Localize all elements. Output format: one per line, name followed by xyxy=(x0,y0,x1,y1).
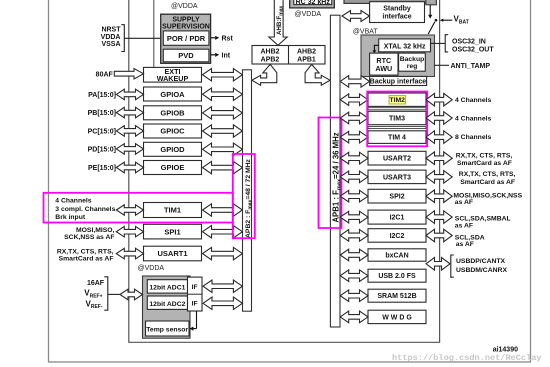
wire I2C1 pins arrow xyxy=(426,211,452,224)
svg-text:SCK,NSS as AF: SCK,NSS as AF xyxy=(64,234,114,241)
peripheral GPIOC box xyxy=(144,124,202,138)
svg-text:PD[15:0]: PD[15:0] xyxy=(88,147,116,154)
svg-text:USART3: USART3 xyxy=(383,174,411,181)
peripheral GPIOD box xyxy=(144,142,202,156)
svg-text:Rst: Rst xyxy=(222,35,234,42)
peripheral SPI2 box xyxy=(368,189,426,203)
svg-text:ANTI_TAMP: ANTI_TAMP xyxy=(451,63,491,70)
svg-text:OSC32_IN: OSC32_IN xyxy=(452,38,486,45)
XTAL 32 kHz box xyxy=(379,39,431,52)
svg-text:PA[15:0]: PA[15:0] xyxy=(88,92,116,99)
spacer box TIM2-TIM3 xyxy=(368,108,426,110)
bus AHB down arrow xyxy=(269,0,287,45)
wire PC[15:0] arrow xyxy=(116,126,143,137)
peripheral bxCAN box xyxy=(368,249,426,261)
wire GPIOC to APB2 bus arrow xyxy=(203,125,243,137)
svg-text:AHB2: AHB2 xyxy=(260,49,279,56)
svg-text:RC 32 kHz: RC 32 kHz xyxy=(296,0,331,6)
supply supervision block U-SUP xyxy=(161,14,211,63)
adc ADC2 box xyxy=(147,296,187,309)
standby gray backdrop xyxy=(344,0,436,3)
node NRST/VDDA/VSSA bracket xyxy=(121,25,124,52)
svg-text:SUPERVISION: SUPERVISION xyxy=(162,23,210,30)
wire TIM1 to APB2 bus arrow xyxy=(203,204,243,216)
wire GPIOA to APB2 bus arrow xyxy=(203,88,243,100)
svg-text:interface: interface xyxy=(382,13,411,20)
svg-text:PE[15:0]: PE[15:0] xyxy=(88,165,116,172)
svg-text:TIM2: TIM2 xyxy=(389,97,405,104)
svg-text:Temp sensor: Temp sensor xyxy=(146,326,188,333)
svg-text:I2C1: I2C1 xyxy=(390,215,405,222)
wire EXTI to APB2 bus arrow xyxy=(203,69,243,81)
wire standby to APB1 arrow xyxy=(342,11,370,22)
adc ADC1 box xyxy=(147,280,187,293)
wire USB2.0FS to APB1 arrow xyxy=(340,270,368,282)
wire PB[15:0] arrow xyxy=(116,107,143,118)
svg-text:RX,TX, CTS, RTS,: RX,TX, CTS, RTS, xyxy=(57,248,114,255)
svg-text:GPIOC: GPIOC xyxy=(160,127,185,136)
wire ANTI_TAMP xyxy=(435,64,450,66)
supply rail wire xyxy=(153,0,155,67)
svg-text:Backup interface: Backup interface xyxy=(370,79,427,86)
PVD box xyxy=(163,49,209,62)
wire NRST to POR/PDR xyxy=(124,37,163,39)
wire WWDG to APB1 arrow xyxy=(340,311,368,323)
svg-text:VREF+: VREF+ xyxy=(84,289,102,300)
wire VREF to adc xyxy=(108,293,120,295)
peripheral GPIOE box xyxy=(144,161,202,175)
svg-text:80AF: 80AF xyxy=(96,71,114,78)
temp sensor box xyxy=(146,321,190,336)
svg-text:Standby: Standby xyxy=(383,5,411,12)
svg-text:VBAT: VBAT xyxy=(454,15,469,26)
wire TIM3 pins arrow xyxy=(426,112,452,125)
highlight TIM2 yellow xyxy=(389,96,406,104)
peripheral SRAM512B box xyxy=(368,289,426,302)
wire TIM2 pins arrow xyxy=(426,93,452,106)
peripheral I2C2 box xyxy=(368,229,426,243)
highlight APB1 magenta box xyxy=(319,118,342,229)
svg-text:SRAM 512B: SRAM 512B xyxy=(377,293,416,300)
wire SPI1 to APB2 bus arrow xyxy=(203,226,243,238)
svg-text:PB[15:0]: PB[15:0] xyxy=(88,110,116,117)
wire TIM4 pins arrow xyxy=(426,131,452,144)
svg-text:@VDDA: @VDDA xyxy=(171,3,198,10)
highlight TIM1 magenta box xyxy=(44,193,233,223)
peripheral EXTI box xyxy=(144,67,202,82)
peripheral USART3 box xyxy=(368,170,426,184)
wire TIM2 to APB1 arrow xyxy=(340,94,368,106)
wire SPI1 pins arrow xyxy=(116,226,143,237)
svg-text:reg: reg xyxy=(407,63,418,70)
svg-text:NRST: NRST xyxy=(101,27,121,34)
svg-text:PVD: PVD xyxy=(178,51,194,60)
Backup interface box xyxy=(370,76,427,85)
svg-text:USART2: USART2 xyxy=(383,156,411,163)
wire bridge to APB2 elbow arrow xyxy=(252,64,277,85)
wire OSC32 bracket xyxy=(431,42,445,44)
svg-text:12bit ADC2: 12bit ADC2 xyxy=(149,301,185,308)
svg-text:USB 2.0 FS: USB 2.0 FS xyxy=(378,273,416,280)
svg-text:RX,TX, CTS, RTS,: RX,TX, CTS, RTS, xyxy=(459,171,516,178)
wire ADC1 to bus arrow xyxy=(203,280,242,292)
adc IF box xyxy=(188,277,203,311)
peripheral GPIOA box xyxy=(144,87,202,101)
wire SPI2 to APB1 arrow xyxy=(340,190,368,202)
svg-text:3 compl. Channels: 3 compl. Channels xyxy=(55,206,115,213)
svg-text:Brk input: Brk input xyxy=(55,214,86,221)
svg-text:TIM3: TIM3 xyxy=(389,116,405,123)
svg-text:https://blog.csdn.net/ReCclay: https://blog.csdn.net/ReCclay xyxy=(392,353,542,363)
VBAT switch symbol xyxy=(429,5,431,16)
svg-text:Backup: Backup xyxy=(400,56,425,63)
wire PA[15:0] arrow xyxy=(116,89,143,100)
wire bridge to APB1 elbow arrow xyxy=(305,64,330,85)
wire ADC2 to bus arrow xyxy=(203,297,242,309)
adc block gray container xyxy=(143,276,191,338)
svg-text:AWU: AWU xyxy=(375,64,392,73)
wire PD[15:0] arrow xyxy=(116,144,143,155)
wire TIM3 to APB1 arrow xyxy=(340,112,368,124)
peripheral TIM3 box xyxy=(368,111,426,124)
wire I2C1 to APB1 arrow xyxy=(340,211,368,223)
svg-text:8 Channels: 8 Channels xyxy=(455,134,491,141)
RTC AWU box xyxy=(370,53,398,75)
POR / PDR box xyxy=(163,31,209,45)
Backup reg box xyxy=(399,53,426,71)
svg-text:SmartCard as AF: SmartCard as AF xyxy=(59,255,114,262)
Int output arrow xyxy=(211,54,216,56)
node USB/CAN bracket xyxy=(451,255,454,277)
svg-text:PC[15:0]: PC[15:0] xyxy=(88,129,116,136)
svg-text:USBDP/CANTX: USBDP/CANTX xyxy=(456,258,506,265)
svg-text:POR / PDR: POR / PDR xyxy=(167,34,206,43)
svg-text:@VBAT: @VBAT xyxy=(353,28,379,35)
peripheral GPIOB box xyxy=(144,106,202,120)
svg-text:W W D G: W W D G xyxy=(382,314,412,321)
RC 32 kHz block xyxy=(290,0,335,8)
wire USART1 pins arrow xyxy=(116,248,143,259)
svg-text:APB2 : Fmax=48 / 72 MHz: APB2 : Fmax=48 / 72 MHz xyxy=(245,158,254,238)
svg-text:4 Channels: 4 Channels xyxy=(455,97,491,104)
peripheral TIM1 box xyxy=(144,203,202,218)
standby interface box xyxy=(370,2,425,23)
svg-text:SmartCard as AF: SmartCard as AF xyxy=(460,179,515,186)
wire backup interface arrow xyxy=(340,76,369,88)
svg-text:WAKEUP: WAKEUP xyxy=(157,74,189,83)
svg-text:GPIOB: GPIOB xyxy=(160,109,185,118)
wire PE[15:0] arrow xyxy=(116,162,143,173)
svg-text:APB1: APB1 xyxy=(297,57,316,64)
wire GPIOE to APB2 bus arrow xyxy=(203,161,243,173)
wire USART2 to APB1 arrow xyxy=(340,152,368,164)
wire VREF arrow xyxy=(120,289,143,300)
svg-text:SmartCard as AF: SmartCard as AF xyxy=(457,160,512,167)
peripheral USART2 box xyxy=(368,151,426,165)
wire USART2 pins arrow xyxy=(426,152,452,165)
wire USART3 pins arrow xyxy=(426,171,452,184)
svg-text:@VDDA: @VDDA xyxy=(295,11,322,18)
svg-text:USBDM/CANRX: USBDM/CANRX xyxy=(456,267,507,274)
spacer box TIM3-TIM4 xyxy=(368,126,426,128)
svg-text:XTAL 32 kHz: XTAL 32 kHz xyxy=(384,43,426,50)
svg-text:SPI2: SPI2 xyxy=(389,194,404,201)
svg-text:IF: IF xyxy=(192,284,198,291)
svg-text:12bit ADC1: 12bit ADC1 xyxy=(149,285,185,292)
svg-text:TIM1: TIM1 xyxy=(164,206,181,215)
wire SRAM512B to APB1 arrow xyxy=(340,290,368,302)
wire IF to temp sensor xyxy=(196,311,198,329)
wire USART1 to APB2 bus arrow xyxy=(203,247,243,259)
wire I2C2 to APB1 arrow xyxy=(340,230,368,242)
svg-text:as AF: as AF xyxy=(455,199,473,206)
wire XTAL to RTC arrow xyxy=(374,45,378,50)
peripheral SPI1 box xyxy=(144,224,202,239)
svg-text:VDDA: VDDA xyxy=(101,34,121,41)
wire GPIOD to APB2 bus arrow xyxy=(203,143,243,155)
peripheral TIM4 box xyxy=(368,131,426,144)
bus APB1 xyxy=(330,15,340,327)
node VREF bracket xyxy=(104,277,108,310)
svg-text:GPIOE: GPIOE xyxy=(161,163,185,172)
svg-text:SPI1: SPI1 xyxy=(164,227,180,236)
svg-text:GPIOA: GPIOA xyxy=(160,90,185,99)
svg-text:Int: Int xyxy=(222,52,231,59)
bus APB2 xyxy=(243,70,252,311)
wire SPI2 pins arrow xyxy=(426,190,452,203)
wire 80AF arrow xyxy=(114,69,143,80)
svg-text:@VDDA: @VDDA xyxy=(138,265,165,272)
wire TIM1 pins arrow xyxy=(116,205,143,215)
wire USART3 to APB1 arrow xyxy=(340,171,368,183)
svg-text:4 Channels: 4 Channels xyxy=(55,198,91,205)
wire USB/CAN pins arrow xyxy=(426,258,450,271)
wire TIM4 to APB1 arrow xyxy=(340,131,368,143)
peripheral I2C1 box xyxy=(368,210,426,224)
peripheral USART1 box xyxy=(144,246,202,261)
highlight TIM group magenta box xyxy=(367,92,427,147)
svg-text:GPIOD: GPIOD xyxy=(160,145,185,154)
svg-text:OSC32_OUT: OSC32_OUT xyxy=(452,46,494,53)
peripheral USB2.0FS box xyxy=(368,269,426,282)
bridge AHB2/APB2 AHB2/APB1 box xyxy=(252,46,325,65)
svg-text:as AF: as AF xyxy=(455,222,473,229)
peripheral WWDG box xyxy=(368,310,426,323)
svg-text:as AF: as AF xyxy=(456,241,474,248)
svg-text:16AF: 16AF xyxy=(87,280,105,287)
svg-text:bxCAN: bxCAN xyxy=(385,253,408,260)
peripheral TIM2 box xyxy=(368,93,426,106)
highlight APB2 magenta box xyxy=(233,154,255,238)
Rst output arrow xyxy=(211,37,216,39)
wire I2C2 pins arrow xyxy=(426,229,452,242)
svg-text:TIM 4: TIM 4 xyxy=(388,135,406,142)
svg-text:4 Channels: 4 Channels xyxy=(455,116,491,123)
svg-text:AHB2: AHB2 xyxy=(297,49,316,56)
svg-text:USART1: USART1 xyxy=(157,249,187,258)
svg-text:VSSA: VSSA xyxy=(101,41,120,48)
svg-text:SUPPLY: SUPPLY xyxy=(172,16,200,23)
svg-text:IF: IF xyxy=(192,301,198,308)
wire GPIOB to APB2 bus arrow xyxy=(203,107,243,119)
svg-text:VREF-: VREF- xyxy=(85,299,102,310)
svg-text:RX,TX, CTS, RTS,: RX,TX, CTS, RTS, xyxy=(456,152,513,159)
svg-text:I2C2: I2C2 xyxy=(390,233,405,240)
inner device frame (left rail, bottom, right edge) xyxy=(129,0,440,342)
backup domain gray box xyxy=(361,35,435,77)
wire bxCAN to APB1 arrow xyxy=(340,249,368,261)
svg-text:APB2: APB2 xyxy=(261,57,280,64)
